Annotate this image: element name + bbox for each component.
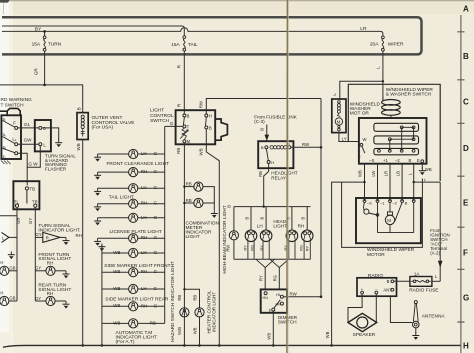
svg-text:GB: GB (9, 266, 15, 271)
wire GB LH rear to TL wire (9, 300, 17, 302)
svg-text:G: G (463, 294, 469, 303)
radio terminal minus (375, 291, 378, 294)
svg-text:CONTROL: CONTROL (150, 113, 174, 119)
svg-text:E: E (358, 154, 361, 158)
turn signal switch terminal TB (25, 187, 28, 190)
svg-text:E: E (417, 158, 420, 163)
washer switch stack (382, 98, 384, 100)
ground combination meter (211, 210, 218, 218)
svg-text:B: B (301, 217, 306, 220)
svg-text:RB: RB (192, 295, 197, 301)
ground antenna (415, 328, 417, 334)
wire RY to dimmer HU (264, 268, 266, 290)
light bulb front clearance LH (98, 153, 129, 155)
svg-text:ANT: ANT (383, 288, 392, 293)
wiper switch bar 1 (374, 123, 419, 131)
svg-text:RY: RY (305, 245, 310, 251)
svg-text:G: G (170, 121, 174, 126)
wire RH indicator to ground (60, 236, 66, 238)
svg-text:LY: LY (342, 137, 347, 142)
wiper switch contacts (390, 127, 414, 151)
wire branch to heater control indicator (184, 289, 199, 308)
svg-text:RW: RW (290, 292, 298, 297)
light bulb side marker front LH (102, 252, 129, 254)
svg-text:WB: WB (425, 167, 432, 172)
hazard switch terminal 3 (15, 152, 18, 155)
svg-text:SIDE MARKER LIGHT FRONT: SIDE MARKER LIGHT FRONT (104, 263, 170, 269)
svg-text:L: L (332, 93, 337, 96)
relay coil (270, 146, 273, 149)
svg-text:TAIL: TAIL (188, 42, 198, 48)
svg-text:LICENSE PLATE LIGHT: LICENSE PLATE LIGHT (110, 229, 162, 235)
page left white edge strip (0, 0, 9, 332)
wire GW hazard L1 to flasher L (18, 143, 39, 145)
headlight bulb at 266.1 (265, 207, 267, 230)
lever H to B2 (205, 117, 208, 126)
svg-text:GL: GL (24, 122, 31, 127)
svg-text:B: B (261, 145, 264, 150)
svg-text:T: T (187, 124, 190, 129)
wiper switch bar 2 (374, 136, 419, 144)
light bulb front clearance RH (98, 171, 129, 173)
svg-text:20A: 20A (370, 41, 379, 47)
svg-text:RADIO: RADIO (368, 273, 383, 279)
svg-text:WB: WB (113, 320, 120, 325)
svg-text:B: B (244, 217, 249, 220)
radio terminal B (391, 280, 394, 283)
wire WB bottom bus (3, 345, 461, 347)
svg-text:HAZARD SWITCH INDICATOR LIGHT: HAZARD SWITCH INDICATOR LIGHT (170, 261, 175, 342)
radio terminal ANT (391, 288, 394, 291)
wire WB from B2 down to bottom bus (206, 129, 219, 346)
lever B to T (183, 117, 184, 125)
svg-text:C: C (463, 97, 469, 106)
svg-text:RH: RH (141, 303, 147, 308)
svg-text:TAIL LIGHT: TAIL LIGHT (109, 194, 134, 200)
svg-text:RW: RW (226, 245, 231, 252)
front turn signal light RH bulb (46, 266, 55, 275)
wiper motor cam switch (364, 202, 365, 210)
svg-text:WB: WB (113, 286, 120, 291)
index line (460, 15, 462, 353)
wire main feed thick bus loop (2, 17, 422, 54)
svg-text:W: W (363, 137, 367, 142)
svg-text:B: B (387, 279, 390, 284)
combination meter bulb 1 (184, 186, 194, 188)
wire L branch right to ignition line (414, 181, 441, 183)
svg-text:G: G (154, 151, 158, 156)
wire GY TR wire to RH rear bulb (35, 300, 46, 302)
headlight bulb at 307.2 (306, 207, 308, 230)
svg-text:L₁: L₁ (12, 136, 16, 141)
svg-text:B: B (463, 52, 469, 61)
light control switch box (176, 110, 216, 144)
wire RB from M down to bottom bus (183, 143, 185, 346)
wire GY TR wire to RH front bulb (35, 270, 46, 272)
svg-text:(For USA): (For USA) (92, 125, 114, 131)
wire L ignition ACC down to radio fuse (439, 182, 441, 281)
svg-text:ANTENNA: ANTENNA (422, 314, 446, 320)
wire G bus (164, 126, 166, 323)
svg-text:H: H (271, 160, 274, 165)
svg-text:E: E (463, 198, 469, 207)
svg-text:GW: GW (24, 138, 33, 143)
svg-text:WB: WB (358, 170, 363, 177)
light bulb license RH (98, 237, 129, 239)
wire GB LH front to TL wire (9, 270, 17, 272)
svg-text:RG: RG (299, 245, 304, 251)
svg-text:–2: –2 (395, 158, 400, 163)
svg-text:INDICATOR LIGHT: INDICATOR LIGHT (212, 292, 217, 333)
wiper motor wire t2 (377, 202, 379, 232)
wire RG to dimmer HL (278, 268, 280, 290)
wire WB bus left (101, 248, 103, 346)
svg-text:RG: RG (273, 275, 278, 281)
speaker diamond (348, 313, 377, 331)
wire radio B to radio fuse (394, 280, 410, 282)
svg-text:FRONT CLEARANCE LIGHT: FRONT CLEARANCE LIGHT (107, 161, 170, 167)
svg-text:R: R (46, 235, 49, 240)
svg-text:SPEAKER: SPEAKER (353, 332, 376, 338)
high-beam indicator bulb (229, 231, 238, 240)
svg-text:LH: LH (141, 215, 147, 220)
fuse TURN 15A (44, 31, 46, 36)
svg-text:B: B (227, 205, 232, 208)
svg-text:G: G (154, 286, 158, 291)
svg-text:LH: LH (257, 224, 263, 229)
wiper switch box (359, 118, 427, 164)
turn signal and hazard warning flasher box (35, 120, 51, 151)
wire L branch to washer motor (340, 81, 383, 99)
svg-text:15A: 15A (171, 42, 180, 48)
svg-text:RY: RY (242, 245, 247, 251)
wiper motor terminals (363, 200, 366, 203)
wire RB relay H to headlight rail (264, 164, 269, 207)
svg-text:+1: +1 (383, 158, 388, 163)
svg-text:WIPER: WIPER (388, 41, 404, 47)
svg-text:RH: RH (47, 291, 53, 296)
svg-text:RB: RB (177, 295, 182, 301)
wire antenna lead (390, 296, 412, 322)
flasher terminal L (39, 143, 42, 146)
svg-text:G: G (154, 201, 158, 206)
svg-text:& WASHER SWITCH: & WASHER SWITCH (386, 92, 432, 98)
svg-text:G: G (154, 215, 158, 220)
svg-text:(C-3): (C-3) (254, 119, 265, 124)
svg-text:L: L (376, 66, 381, 69)
dimmer terminal E and lever (272, 308, 275, 311)
combination meter bulb 2 (184, 202, 194, 204)
svg-text:F: F (13, 121, 16, 126)
svg-text:GY: GY (28, 218, 33, 224)
svg-text:GB: GB (16, 218, 21, 224)
turn signal indicator LH triangle (2, 232, 9, 242)
svg-text:D: D (463, 144, 469, 153)
svg-text:B: B (409, 158, 412, 163)
svg-text:RB: RB (176, 148, 181, 154)
svg-text:HL: HL (276, 292, 282, 297)
svg-text:SIGNAL LIGHT: SIGNAL LIGHT (38, 256, 71, 262)
svg-text:LIGHT: LIGHT (150, 108, 164, 114)
wire RW dimmer HL to RW line (283, 296, 321, 298)
svg-text:WB: WB (76, 143, 81, 150)
wire TR to RH indicator (35, 236, 43, 238)
svg-text:LH: LH (141, 151, 147, 156)
svg-text:M: M (187, 139, 191, 144)
svg-text:15A: 15A (32, 42, 41, 48)
wiper motor M (389, 202, 391, 212)
light control switch terminal H (205, 114, 208, 117)
hazard warning light switch box (1, 115, 21, 159)
svg-text:B₃: B₃ (3, 145, 7, 149)
valve coil (81, 115, 84, 118)
svg-text:WB: WB (267, 333, 272, 340)
svg-text:A: A (463, 5, 469, 14)
svg-text:RELAY: RELAY (271, 175, 286, 180)
merge chevrons to dimmer feeds (256, 259, 275, 267)
svg-text:–S: –S (367, 200, 372, 205)
wire R from TAIL fuse to light control switch (183, 51, 185, 114)
svg-text:LIGHT: LIGHT (273, 224, 287, 229)
wire GY from TR down (34, 207, 36, 301)
svg-text:(For A.T): (For A.T) (116, 339, 135, 345)
light bulb automatic T/M indicator (102, 322, 129, 324)
ground flasher (55, 140, 62, 148)
wire RH rear bulb to ground (55, 300, 66, 302)
svg-text:1A: 1A (414, 272, 419, 277)
svg-text:LH: LH (141, 185, 147, 190)
wire LY washer motor to wiper switch (339, 133, 359, 142)
svg-text:G: G (154, 269, 158, 274)
wire branch left at 215.8 (0, 215, 17, 217)
wire headlight bottom collector (234, 258, 311, 260)
washer motor box (332, 99, 346, 133)
svg-text:B: B (77, 107, 82, 110)
svg-text:RH: RH (141, 235, 147, 240)
wiper switch bar 3 (374, 148, 419, 154)
svg-text:G: G (154, 303, 158, 308)
svg-text:–S: –S (369, 158, 374, 163)
relay terminal S (288, 146, 291, 149)
wire RH front bulb to ground (55, 270, 66, 272)
light bulb tail RH (98, 203, 129, 205)
svg-text:–2: –2 (392, 200, 397, 205)
light bulb side marker front RH (102, 271, 129, 273)
wiper motor diagonal lever (395, 202, 402, 221)
hazard switch levers (3, 121, 15, 153)
svg-text:RY: RY (259, 275, 264, 281)
headlight bulb at 251.0 (250, 207, 252, 230)
svg-text:FLASHER: FLASHER (45, 167, 67, 172)
torn page corner mark (0, 0, 10, 3)
rheostat between T and M (182, 128, 186, 140)
svg-text:MOT OR: MOT OR (350, 111, 370, 117)
svg-text:H: H (463, 341, 469, 350)
svg-text:SWITCH: SWITCH (150, 118, 169, 124)
node bus B tap for TURN fuse (43, 30, 46, 33)
outer vent control valve box (77, 113, 88, 140)
svg-text:LR: LR (360, 26, 367, 32)
svg-text:SIDE MARKER LIGHT REAR: SIDE MARKER LIGHT REAR (105, 297, 169, 303)
wire LH indicator to TL wire (9, 236, 17, 238)
wire GL hazard F to flasher B (18, 127, 39, 129)
wire RW from H up and right (206, 99, 321, 115)
svg-text:B: B (209, 125, 212, 130)
fuse TAIL 15A (183, 36, 186, 51)
svg-text:–1: –1 (380, 200, 385, 205)
svg-text:HIGH-BEAM INDICATOR LIGHT: HIGH-BEAM INDICATOR LIGHT (222, 205, 227, 273)
svg-text:RH: RH (298, 224, 305, 229)
wire feed line y85 to hazard switch and vent valve (0, 85, 83, 113)
rear turn signal light RH bulb (46, 296, 55, 305)
ground wiper switch E (421, 163, 423, 169)
wire RW relay S to RW line (291, 146, 321, 148)
svg-text:RH: RH (47, 260, 53, 265)
svg-text:G: G (154, 169, 158, 174)
svg-text:LIGHT: LIGHT (186, 234, 200, 240)
svg-text:B: B (260, 128, 265, 131)
wire wrap around motor box (342, 179, 423, 248)
turn signal switch lever (26, 190, 28, 204)
page top edge line (0, 0, 474, 2)
relay terminal B (265, 146, 268, 149)
svg-text:GY: GY (35, 232, 41, 237)
svg-text:WB: WB (113, 269, 120, 274)
wire radio fuse to ignition line (432, 280, 440, 282)
svg-text:BY: BY (35, 27, 42, 33)
light control switch terminal M (183, 140, 186, 143)
wire WB valve to bottom bus (82, 140, 84, 346)
antenna mast (414, 301, 417, 304)
turn signal indicator RH triangle (43, 232, 60, 242)
light control switch terminal B2 (205, 126, 208, 129)
svg-text:H: H (0, 260, 3, 265)
turn signal switch box (13, 181, 39, 209)
light bulb side marker rear LH (102, 288, 129, 290)
hazard warning light switch connector tab (0, 108, 20, 115)
wiper motor box (356, 198, 421, 243)
wire WB branch left wrap around wiper motor (332, 182, 365, 345)
svg-text:RY: RY (259, 245, 264, 251)
turn signal switch terminal TL (15, 204, 18, 207)
svg-text:RB: RB (258, 171, 263, 177)
svg-text:(A-2): (A-2) (430, 250, 440, 255)
wire bus A (to TAIL fuse) (2, 26, 184, 36)
light control switch connector bracket (216, 119, 228, 140)
svg-text:LH: LH (141, 286, 147, 291)
svg-text:LH: LH (141, 250, 147, 255)
wire WB dimmer E to bottom bus (272, 311, 274, 345)
light control switch terminal B (183, 114, 186, 117)
svg-text:RW: RW (302, 142, 310, 147)
svg-text:RH: RH (141, 169, 147, 174)
svg-text:TR: TR (32, 199, 38, 204)
svg-text:G: G (154, 185, 158, 190)
wire B fusible link feed with arrow (266, 125, 268, 135)
wire GR from TURN fuse down (44, 51, 46, 85)
wire flasher B to ground (42, 128, 59, 140)
svg-text:TB: TB (29, 186, 35, 191)
light bulb license LH (98, 217, 129, 219)
svg-text:LR: LR (384, 171, 389, 176)
svg-text:GR: GR (34, 68, 39, 76)
wire speaker minus (375, 294, 377, 323)
svg-text:F: F (463, 248, 468, 257)
wire hazard terminal3 to TB net (18, 153, 28, 167)
wire G from T to bulb bus (165, 125, 183, 127)
svg-text:WB: WB (325, 331, 330, 338)
light bulb tail LH (98, 187, 129, 189)
svg-text:LW: LW (371, 171, 376, 177)
svg-text:RW: RW (199, 100, 204, 108)
svg-text:GY: GY (35, 266, 41, 271)
svg-text:G: G (154, 235, 158, 240)
svg-text:WB: WB (113, 250, 120, 255)
svg-text:HU: HU (263, 295, 269, 300)
svg-text:RADIO FUSE: RADIO FUSE (409, 288, 438, 294)
wire headlight top rail (234, 206, 311, 208)
svg-text:SIGNAL LIGHT: SIGNAL LIGHT (38, 287, 71, 293)
node branch to washer motor (382, 80, 384, 82)
svg-text:RB: RB (186, 182, 192, 187)
svg-text:WB: WB (192, 327, 197, 334)
svg-text:B: B (405, 200, 408, 205)
svg-text:H: H (0, 291, 3, 296)
svg-text:T SWITCH: T SWITCH (1, 102, 25, 108)
wiper switch container box (348, 84, 440, 181)
svg-text:RH: RH (141, 269, 147, 274)
headlight bulb at 291.9 (291, 207, 293, 230)
svg-text:B: B (260, 217, 265, 220)
wire GB from TL down (16, 207, 18, 301)
radio box (357, 278, 397, 296)
wiper motor bottom wire (378, 202, 414, 232)
svg-text:G: G (154, 250, 158, 255)
svg-text:E: E (269, 308, 272, 313)
svg-text:WB: WB (198, 148, 203, 155)
wire RW down right side (320, 99, 322, 297)
ground WB bus top (101, 245, 103, 248)
svg-text:RH: RH (141, 201, 147, 206)
light control switch terminal T (183, 125, 186, 128)
svg-text:M: M (387, 218, 391, 223)
radio fuse box (410, 277, 432, 287)
crease line (286, 0, 289, 353)
headlight relay box (258, 141, 293, 168)
wire L from WIPER fuse down to washer switch (382, 51, 384, 100)
svg-text:B: B (187, 113, 190, 118)
hazard switch terminal L1 (15, 143, 18, 146)
hazard switch case hatching (1, 161, 11, 165)
page edge faint line top-left (3, 1, 5, 14)
svg-text:GB: GB (9, 296, 15, 301)
ground LH indicator (8, 252, 15, 260)
svg-text:RB: RB (186, 198, 192, 203)
wire speaker plus (348, 294, 362, 323)
svg-text:LB: LB (396, 171, 401, 176)
index ticks (457, 32, 464, 322)
svg-text:RG: RG (250, 245, 255, 251)
turn signal switch terminal TR (34, 204, 37, 207)
washer motor internals (338, 101, 341, 104)
dimmer terminal HL (280, 295, 283, 298)
fuse WIPER 20A (382, 36, 385, 51)
svg-text:TL: TL (14, 199, 20, 204)
high-beam indicator feed (233, 207, 235, 232)
svg-text:WB: WB (113, 303, 120, 308)
rear turn signal light LH bulb (0, 296, 9, 305)
wires switch to motor (365, 164, 414, 201)
